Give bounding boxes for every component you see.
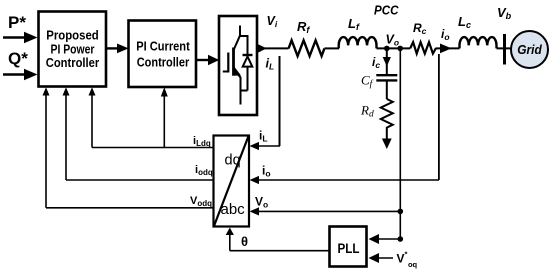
wire iLdq output line [92, 147, 214, 149]
wire Vodq vertical to power controller with arrow [43, 87, 50, 208]
block Proposed PI Power Controller [39, 12, 107, 87]
inductor Lf [339, 37, 377, 48]
svg-text:Controller: Controller [137, 55, 190, 70]
wire arrow power controller to current controller [106, 44, 129, 54]
block inverter box [219, 16, 257, 115]
node junction dot ic branch [384, 46, 390, 52]
svg-text:PI Current: PI Current [136, 39, 190, 54]
source Grid [511, 31, 548, 68]
resistor Rc [410, 42, 436, 53]
wire Lf to Rc [377, 47, 411, 49]
wire Lc to grid [497, 47, 514, 49]
wire iL feedback horizontal into dq block [250, 142, 281, 150]
node junction dot Vo to dq line [398, 209, 404, 215]
svg-text:P*: P* [8, 13, 26, 32]
wire Q* input arrow [3, 69, 38, 81]
diode D1 inside inverter [243, 36, 253, 91]
wire Vo feedback horizontal into dq block [250, 207, 401, 215]
wire Vo feedback vertical from junction [399, 49, 401, 239]
svg-text:Proposed: Proposed [46, 28, 99, 43]
wire io feedback horizontal into dq block [250, 176, 439, 184]
wire Rf to Lf [324, 47, 339, 49]
svg-text:PLL: PLL [338, 241, 360, 256]
wire arrow current controller to inverter [196, 55, 219, 65]
wire iLdq vertical to power controller with arrow [89, 87, 96, 147]
svg-text:Q*: Q* [8, 49, 28, 68]
wire Vo into PLL arrow [369, 234, 401, 244]
capacitor Cf [376, 75, 397, 80]
wire Voq reference into PLL arrow [369, 253, 394, 263]
resistor Rf [289, 40, 325, 56]
svg-text:θ: θ [241, 234, 248, 249]
wire Cf to Rd [386, 80, 388, 99]
wire iodq vertical to power controller with arrow [63, 87, 70, 180]
wire P* input arrow [3, 32, 38, 44]
wire Vodq output line [46, 207, 214, 209]
wire theta from PLL to dq block [226, 228, 329, 251]
svg-text:dq: dq [225, 152, 241, 168]
wire Rd to output arrow [382, 127, 392, 149]
wire iLdq branch vertical to current controller with arrow [161, 87, 168, 147]
svg-text:abc: abc [221, 201, 246, 218]
node Vb bus bar [503, 34, 506, 65]
transistor IGBT inside inverter [223, 26, 249, 105]
wire iodq output line [66, 179, 214, 181]
wire iL feedback vertical [279, 56, 281, 146]
block PLL [330, 227, 367, 267]
inductor Lc [460, 37, 497, 48]
wire io arrow after Rc [435, 44, 459, 54]
wire inverter output with arrow [257, 44, 289, 53]
wire ic branch with down arrow [383, 48, 391, 75]
wire io feedback vertical [438, 54, 440, 180]
node junction dot Vo feedback [397, 46, 403, 52]
svg-text:Controller: Controller [46, 55, 100, 70]
svg-text:PCC: PCC [374, 3, 399, 18]
node junction dot at PLL input [398, 236, 404, 242]
svg-text:Grid: Grid [517, 42, 542, 57]
block dq abc transform [214, 136, 250, 227]
resistor Rd [381, 99, 393, 128]
block PI Current Controller [129, 21, 197, 88]
